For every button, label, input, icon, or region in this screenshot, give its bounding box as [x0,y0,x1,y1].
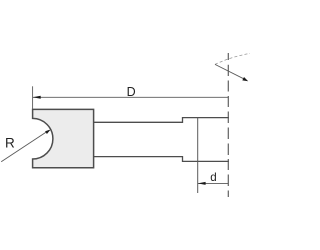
web and hub bottom outline [94,157,229,162]
D dimension arrowhead [33,96,41,99]
svg-text:d: d [210,171,216,184]
R leader arrowhead [45,130,51,135]
svg-text:D: D [127,85,136,99]
cutter body (rim with concave profile) [33,109,94,167]
rotation arc front (solid) [215,64,245,79]
D dimension line [33,96,229,98]
D extension line [32,86,34,109]
R leader line [1,131,48,162]
centerline axis [227,53,229,197]
bore edge / extension line for d [197,118,199,193]
d dimension line [198,182,229,184]
rotation arc back (dashed) [215,53,250,64]
d dimension arrowhead [198,182,206,185]
svg-text:R: R [5,136,15,151]
web and hub top outline [94,118,229,123]
rotation arrowhead [242,77,248,81]
